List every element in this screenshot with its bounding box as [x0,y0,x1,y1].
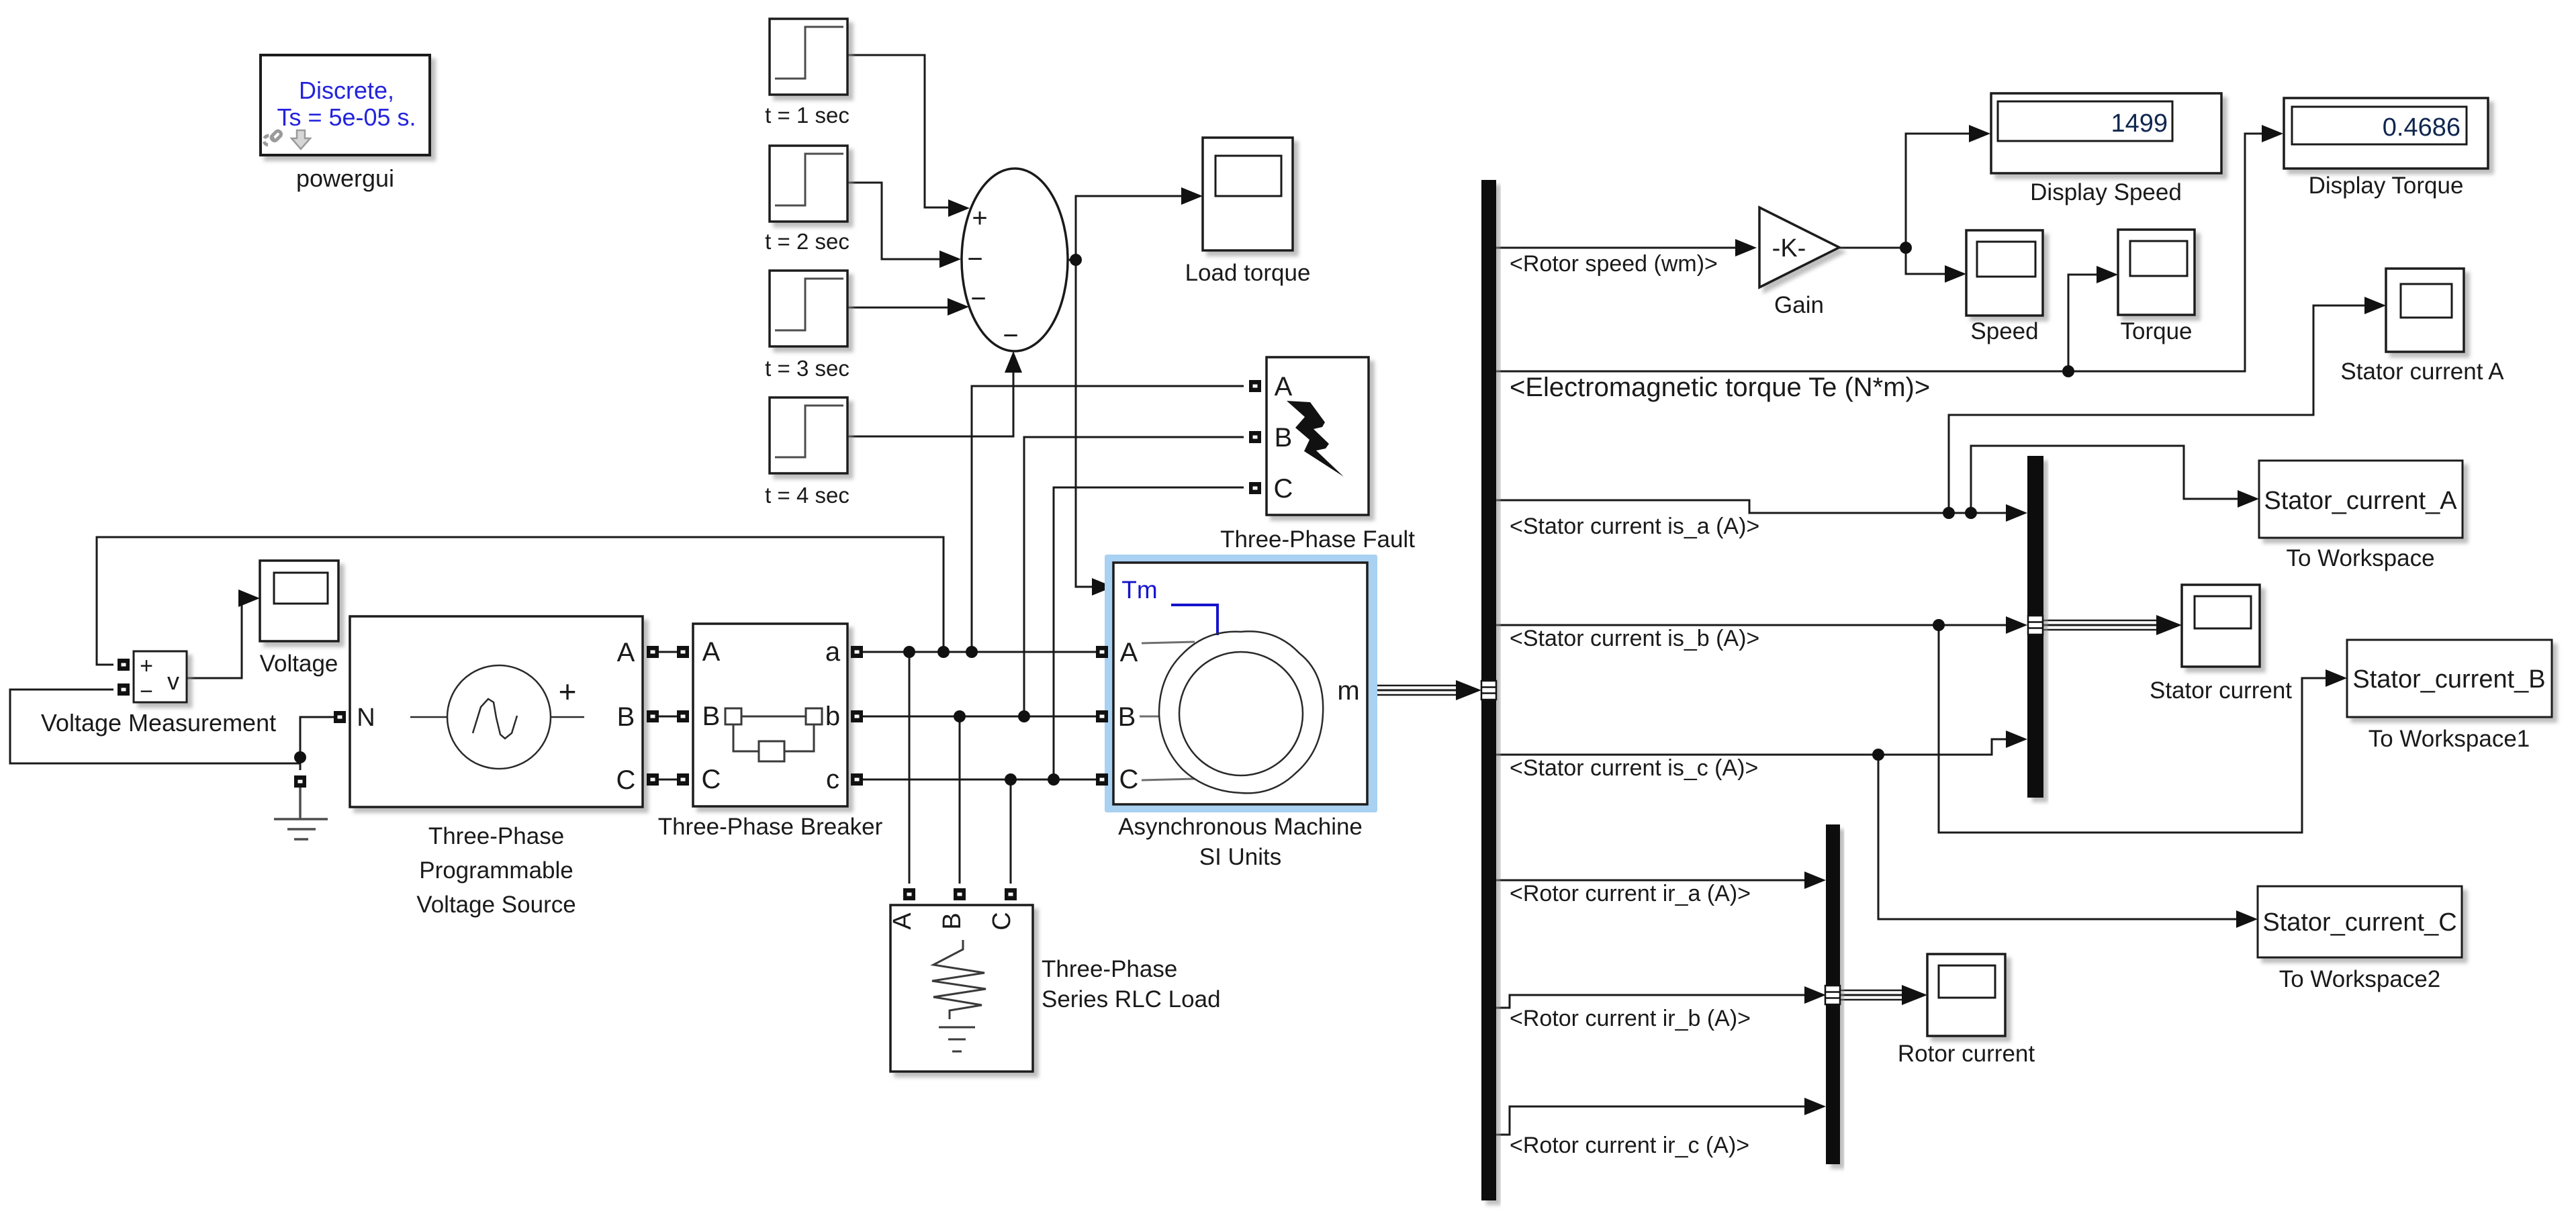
svg-text:<Rotor speed (wm)>: <Rotor speed (wm)> [1510,251,1718,277]
svg-text:Series RLC Load: Series RLC Load [1042,986,1221,1012]
svg-text:a: a [825,637,841,667]
svg-text:0.4686: 0.4686 [2383,113,2460,142]
svg-text:1499: 1499 [2111,109,2168,138]
svg-text:Three-Phase: Three-Phase [1042,956,1177,982]
svg-text:Programmable: Programmable [419,857,573,884]
svg-text:To Workspace2: To Workspace2 [2279,966,2441,992]
svg-text:m: m [1337,676,1359,706]
svg-text:<Stator current is_a (A)>: <Stator current is_a (A)> [1510,514,1759,539]
svg-text:t = 2 sec: t = 2 sec [765,229,849,254]
svg-text:−: − [967,244,982,274]
svg-text:Load torque: Load torque [1185,260,1311,286]
svg-text:Three-Phase Breaker: Three-Phase Breaker [658,814,883,840]
svg-text:C: C [988,912,1016,930]
svg-text:C: C [702,765,721,794]
svg-text:C: C [1274,474,1293,504]
svg-text:Display Torque: Display Torque [2309,173,2464,199]
svg-text:t = 3 sec: t = 3 sec [765,356,849,381]
svg-text:A: A [1275,372,1293,401]
svg-text:Gain: Gain [1774,292,1824,318]
svg-text:Torque: Torque [2120,318,2192,344]
svg-text:Three-Phase: Three-Phase [428,823,564,849]
svg-text:Three-Phase Fault: Three-Phase Fault [1220,526,1415,553]
svg-text:c: c [826,765,839,794]
svg-text:<Rotor current ir_b (A)>: <Rotor current ir_b (A)> [1510,1006,1751,1031]
svg-text:+: + [559,674,577,709]
svg-text:A: A [1120,638,1138,667]
svg-text:SI Units: SI Units [1199,844,1282,870]
svg-text:−: − [970,284,986,314]
svg-text:C: C [616,765,636,795]
svg-text:Voltage Source: Voltage Source [416,892,576,918]
svg-text:Stator_current_A: Stator_current_A [2264,487,2457,515]
svg-text:Tm: Tm [1121,576,1157,604]
svg-text:<Rotor current ir_a (A)>: <Rotor current ir_a (A)> [1510,881,1751,906]
svg-text:Stator_current_C: Stator_current_C [2262,908,2456,937]
svg-text:To Workspace: To Workspace [2286,545,2434,571]
svg-text:t = 1 sec: t = 1 sec [765,103,849,128]
svg-text:−: − [1003,321,1018,350]
svg-text:Discrete,: Discrete, [299,77,394,104]
svg-text:Ts = 5e-05 s.: Ts = 5e-05 s. [277,103,416,131]
svg-text:B: B [617,702,635,732]
svg-text:B: B [1275,423,1293,453]
svg-text:v: v [167,667,179,695]
svg-text:+: + [140,653,153,679]
svg-text:B: B [1118,702,1136,732]
svg-text:t = 4 sec: t = 4 sec [765,483,849,508]
svg-text:A: A [702,637,721,667]
svg-text:Voltage Measurement: Voltage Measurement [41,709,276,737]
svg-text:Speed: Speed [1970,318,2038,344]
svg-text:<Electromagnetic torque Te (N*: <Electromagnetic torque Te (N*m)> [1510,373,1930,402]
svg-text:<Stator current is_c (A)>: <Stator current is_c (A)> [1510,755,1758,781]
svg-text:-K-: -K- [1772,234,1806,263]
svg-text:powergui: powergui [296,164,394,192]
svg-text:A: A [617,638,635,667]
svg-text:Rotor current: Rotor current [1898,1041,2035,1067]
svg-text:−: − [140,679,153,704]
svg-text:Voltage: Voltage [260,651,338,677]
svg-text:N: N [357,704,375,732]
svg-text:To Workspace1: To Workspace1 [2368,726,2530,752]
svg-text:Asynchronous Machine: Asynchronous Machine [1118,814,1363,840]
svg-text:A: A [888,912,917,930]
svg-text:b: b [825,702,840,731]
svg-text:Stator current A: Stator current A [2340,359,2504,385]
svg-text:+: + [972,203,987,233]
svg-text:<Rotor current ir_c (A)>: <Rotor current ir_c (A)> [1510,1133,1749,1158]
svg-text:Stator current: Stator current [2150,677,2292,704]
svg-text:B: B [702,702,721,731]
svg-text:Display Speed: Display Speed [2030,179,2182,205]
svg-text:C: C [1119,765,1139,794]
svg-text:B: B [938,912,966,929]
svg-text:<Stator current is_b (A)>: <Stator current is_b (A)> [1510,626,1759,651]
svg-text:Stator_current_B: Stator_current_B [2352,665,2545,694]
